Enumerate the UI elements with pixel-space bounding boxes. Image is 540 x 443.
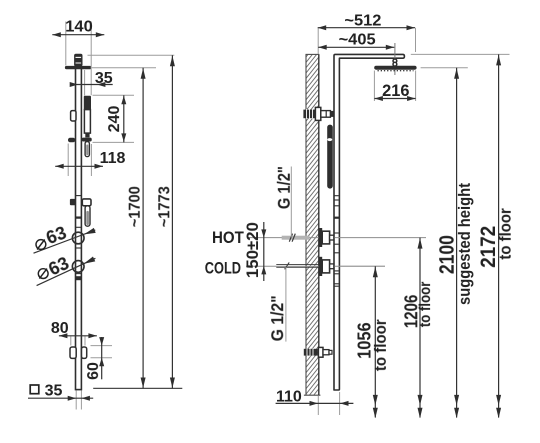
ref line 2100	[421, 67, 468, 69]
hand shower capsule side	[327, 125, 333, 189]
dim 1206 to floor	[400, 238, 434, 419]
holder bar	[82, 138, 92, 142]
dim 35 top	[70, 70, 113, 96]
dim 1056 to floor	[340, 266, 390, 418]
COLD pipe centerline	[246, 265, 385, 267]
bracket 2 (right)	[82, 199, 91, 206]
handle below holder	[85, 142, 89, 157]
svg-text:COLD: COLD	[205, 258, 241, 277]
HOT valve	[319, 228, 334, 247]
svg-text:240: 240	[106, 106, 123, 133]
svg-text:140: 140	[65, 19, 93, 36]
dim 80	[51, 320, 97, 346]
svg-text:35: 35	[95, 70, 113, 87]
bottom wall clips	[70, 347, 87, 358]
top cap	[74, 54, 82, 67]
label G 1/2 upper	[274, 166, 294, 237]
head disc side	[374, 66, 416, 70]
label G 1/2 lower	[267, 267, 287, 342]
ball joint	[393, 59, 397, 66]
svg-text:to floor: to floor	[371, 319, 390, 371]
svg-text:35: 35	[45, 383, 63, 400]
square 35 label	[30, 383, 62, 400]
dim 2100 suggested height	[436, 68, 474, 418]
top flange disc	[65, 66, 92, 69]
column seams	[75, 196, 82, 274]
dim 150+-20	[243, 222, 266, 281]
knob circle 2	[72, 261, 84, 273]
svg-text:216: 216	[382, 81, 409, 100]
COLD valve	[319, 257, 334, 276]
hand shower head (dark)	[84, 96, 91, 111]
dim ~1773	[156, 55, 175, 388]
dim 140	[52, 19, 104, 96]
left knob at holder	[68, 138, 75, 143]
dim ~405	[318, 32, 394, 50]
svg-text:110: 110	[276, 389, 302, 406]
dim 110	[276, 389, 354, 415]
svg-text:80: 80	[51, 320, 69, 337]
svg-text:suggested height: suggested height	[455, 183, 474, 305]
svg-text:~512: ~512	[344, 12, 381, 29]
svg-text:to floor: to floor	[496, 208, 515, 260]
dim square35	[28, 391, 93, 410]
dia 63 leader 1	[34, 223, 96, 254]
shower arm and riser	[334, 54, 404, 390]
spray face dots	[378, 70, 414, 72]
floor line left view	[93, 387, 182, 389]
COLD pipe walls	[276, 264, 318, 266]
svg-text:118: 118	[100, 150, 126, 167]
head centerline	[394, 43, 396, 75]
svg-text:G 1/2": G 1/2"	[267, 295, 287, 341]
dim 2172 to floor	[477, 54, 515, 418]
svg-text:~1700: ~1700	[127, 186, 144, 227]
dim ~1700	[127, 68, 146, 389]
dim 216	[374, 71, 415, 102]
svg-text:60: 60	[85, 362, 102, 380]
HOT pipe centerline	[247, 237, 426, 239]
COLD pipe break X	[285, 262, 290, 269]
upper left clip	[71, 111, 76, 121]
hand shower foot	[85, 133, 89, 138]
svg-text:~405: ~405	[339, 32, 376, 49]
dia 63 leader 2	[37, 253, 96, 286]
handle 2	[85, 206, 90, 226]
top wall fitting	[303, 107, 333, 120]
dim 240	[93, 95, 135, 142]
dark band on column	[75, 276, 81, 280]
side column seams	[334, 196, 339, 287]
ref line 2172	[411, 53, 510, 55]
svg-text:~1773: ~1773	[156, 186, 173, 227]
dim ~512	[318, 12, 416, 54]
hand shower body	[84, 110, 90, 134]
HOT pipe break marks	[289, 234, 292, 242]
wall hatched	[304, 41, 321, 410]
dim 60	[85, 337, 112, 380]
ref line flange (for ~1700)	[92, 67, 156, 69]
knob 2 (left, dark)	[70, 199, 76, 205]
bottom wall fitting	[304, 347, 332, 357]
svg-text:150±20: 150±20	[243, 222, 262, 278]
HOT pipe grey bar	[282, 236, 310, 240]
knob circle 1	[72, 232, 84, 244]
svg-text:HOT: HOT	[212, 228, 244, 247]
column rail body	[76, 68, 82, 390]
svg-text:to floor: to floor	[417, 282, 434, 328]
dim 118	[55, 144, 125, 177]
ref line top (for ~1773)	[88, 54, 175, 56]
